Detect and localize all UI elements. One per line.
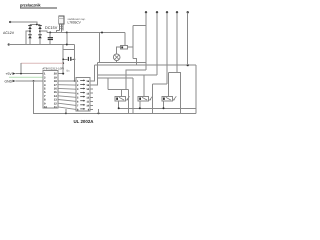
fuse F1: [120, 46, 127, 50]
node rail j1: [49, 32, 51, 34]
wire drop 129: [128, 90, 130, 114]
diode D4: [38, 35, 42, 38]
wire comp2 feed: [143, 75, 145, 96]
wire vcc drop to IC: [62, 45, 64, 74]
node cap right: [74, 58, 76, 60]
wire link row4: [58, 92, 76, 93]
node AC bottom: [8, 43, 10, 45]
wire comp3 gnd: [163, 101, 165, 108]
svg-text:L7805CV: L7805CV: [68, 20, 82, 24]
emitter arrow Q2: [150, 96, 153, 100]
U2 arrows: [80, 80, 84, 108]
wire U2 out1 riser: [90, 65, 94, 81]
svg-text:15: 15: [54, 91, 57, 94]
node out4: [176, 11, 178, 13]
svg-text:10: 10: [44, 106, 47, 109]
wire regulator left leg: [57, 30, 60, 32]
node GND j: [33, 80, 35, 82]
emitter arrow Q3: [173, 96, 176, 100]
wire link row7: [58, 103, 76, 105]
node out1: [145, 11, 147, 13]
wire link row6: [58, 100, 76, 102]
wire bridge left branch: [29, 25, 31, 45]
svg-text:UL 2002A: UL 2002A: [74, 119, 95, 124]
svg-text:17: 17: [54, 84, 57, 87]
wire bridge right branch: [39, 25, 41, 45]
node bus j1: [65, 112, 67, 114]
node bridge top j: [36, 24, 38, 26]
wire link 108: [107, 78, 109, 89]
node out5: [187, 11, 189, 13]
wire rail end drop: [124, 33, 126, 46]
wire comp1 feed: [126, 70, 146, 89]
svg-text:AC12V: AC12V: [3, 31, 15, 35]
switch S1 jog: [133, 59, 137, 65]
node bridge acr j: [39, 30, 41, 32]
node AC top: [9, 21, 11, 23]
driver U2: [76, 78, 90, 112]
node rail j3: [101, 32, 103, 34]
U2 pin numbers right: [86, 80, 89, 111]
svg-text:13: 13: [54, 99, 57, 102]
wire U2 out2 riser: [90, 63, 97, 85]
wire H89.5: [108, 89, 129, 91]
transistor Q1: [115, 96, 126, 101]
diode D3: [28, 35, 32, 38]
wire DC15V rail: [47, 32, 125, 34]
U2 pin numbers left: [77, 80, 79, 111]
wire out1 drop: [145, 12, 147, 70]
wire out3 drop: [166, 12, 168, 84]
wire link row8: [58, 107, 76, 110]
wire out stub5: [90, 96, 93, 98]
wire bus upper: [119, 107, 196, 109]
wire lamp branch left: [99, 33, 101, 63]
node bridge acl j: [29, 30, 31, 32]
node out3: [166, 11, 168, 13]
wire bridge top rail: [30, 24, 40, 26]
wire out stub6: [90, 100, 93, 102]
U1 pin numbers right: [54, 73, 58, 109]
wire pin20 link: [58, 73, 63, 75]
node out2: [156, 11, 158, 13]
U1 pin numbers left: [44, 73, 47, 109]
voltage regulator U3: [59, 16, 64, 24]
node j4: [66, 44, 68, 46]
svg-text:AT90S2313-10PI: AT90S2313-10PI: [42, 67, 64, 70]
svg-text:14: 14: [54, 95, 57, 98]
svg-text:19: 19: [54, 76, 57, 79]
wire link row3: [58, 87, 76, 90]
capacitor C2: [63, 58, 67, 60]
wire GND to bus: [34, 81, 196, 113]
node +5V j: [20, 73, 22, 75]
wire reset drop: [73, 45, 75, 82]
svg-text:DC15V: DC15V: [45, 26, 58, 30]
wire out stub3: [90, 88, 93, 90]
wire out stub8: [90, 108, 93, 110]
wire GND rail left: [9, 44, 75, 46]
wire comp3 feed: [168, 73, 170, 97]
wire regulator center leg: [60, 30, 62, 32]
wire H84.1: [153, 83, 167, 85]
wire AC top: [10, 22, 37, 25]
wire fuse lead right: [127, 46, 133, 48]
wire out5 drop: [187, 12, 189, 65]
wire GND: [16, 80, 44, 82]
wire bridge DC+ stub: [40, 31, 47, 32]
wire cap branch: [66, 33, 68, 45]
node bus j2: [98, 112, 100, 114]
node vcc-pink: [62, 62, 64, 64]
wire link row5: [58, 96, 76, 97]
capacitor C1: [49, 33, 51, 38]
emitter arrow Q1: [127, 96, 130, 100]
svg-text:przelacznik: przelacznik: [20, 2, 41, 7]
wire right edge drop: [195, 65, 197, 108]
svg-text:16: 16: [54, 88, 57, 91]
wire bus stub1: [65, 109, 67, 114]
transistor Q3: [162, 96, 173, 101]
wire switch riser: [132, 26, 134, 59]
diode D2: [38, 26, 42, 29]
svg-text:11: 11: [54, 106, 57, 109]
svg-text:12: 12: [54, 102, 57, 105]
wire H64.6 long: [94, 64, 195, 66]
wire +5V: [16, 73, 44, 75]
wire lamp bottom: [116, 61, 118, 63]
svg-text:20: 20: [54, 73, 57, 76]
wire H75.2: [97, 74, 157, 76]
node bus1 j1: [118, 107, 120, 109]
node bus1 j2: [139, 107, 141, 109]
svg-text:18: 18: [54, 80, 57, 83]
lamp L1: [113, 54, 120, 61]
transistor Q2: [138, 96, 149, 101]
node cap left: [62, 58, 64, 60]
wire +5V riser: [20, 63, 22, 73]
wire pink net: [21, 62, 63, 64]
wire link row2: [58, 84, 76, 86]
svg-text:GND: GND: [5, 79, 13, 83]
microcontroller U1: [43, 70, 58, 108]
wire H62.6: [97, 62, 146, 64]
wire green net: [9, 76, 43, 78]
wire out stub4: [90, 92, 93, 94]
wire comp2 gnd: [139, 101, 141, 108]
regulator legs: [59, 24, 64, 30]
wire out4 drop: [176, 12, 178, 72]
wire bus stub2: [98, 109, 100, 114]
wire comp1 gnd: [118, 101, 120, 108]
diode D1: [28, 26, 32, 29]
svg-text:+5V: +5V: [6, 72, 13, 76]
wire out2 drop: [156, 12, 158, 75]
node bus1 j3: [163, 107, 165, 109]
wire drop 133: [132, 78, 134, 113]
wire bridge AC1 stub: [26, 31, 30, 44]
wire lamp top: [117, 47, 121, 54]
wire comp1 top lead: [121, 90, 123, 97]
wire out4 jog: [169, 73, 181, 114]
wire link row1: [58, 80, 76, 82]
node rail j2: [66, 32, 68, 34]
wire out stub7: [90, 104, 93, 106]
wire out1 link: [133, 25, 146, 27]
title underline: [20, 7, 57, 9]
wire H78.1: [97, 77, 133, 79]
node H64 j: [187, 64, 189, 66]
wire cap top loop: [63, 48, 74, 50]
wire drop 152.7: [152, 84, 154, 113]
wire bus right corner: [195, 108, 197, 113]
